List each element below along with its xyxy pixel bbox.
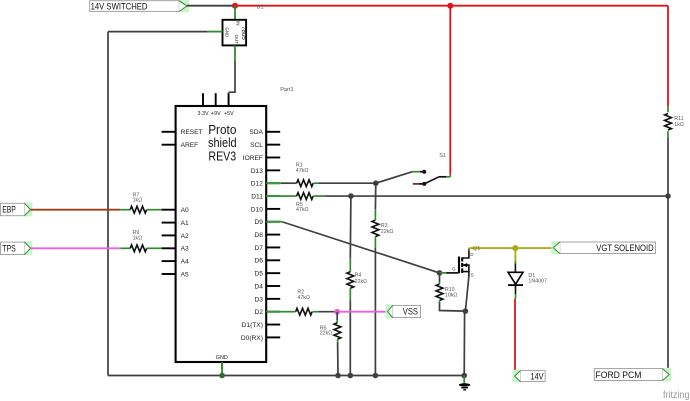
- svg-text:S: S: [471, 272, 474, 277]
- svg-text:IN: IN: [236, 21, 241, 25]
- net label TPS: [1, 241, 33, 255]
- junction node R4 bus: [348, 373, 354, 379]
- svg-text:VGT SOLENOID: VGT SOLENOID: [596, 243, 654, 253]
- svg-text:D2: D2: [254, 309, 263, 316]
- wire 14V SWITCHED to U1 IN node: [187, 5, 235, 7]
- svg-text:IOREF: IOREF: [243, 155, 263, 162]
- resistor R3: [372, 209, 379, 248]
- wire VSS magenta: [337, 311, 387, 313]
- svg-text:A4: A4: [181, 259, 189, 266]
- svg-text:D10: D10: [251, 206, 263, 213]
- svg-text:47kΩ: 47kΩ: [297, 295, 310, 301]
- label R2 value: [297, 290, 310, 302]
- net label 14V: [513, 370, 546, 383]
- svg-text:A0: A0: [181, 207, 189, 214]
- label D1 value: [528, 273, 547, 284]
- resistor R4: [347, 258, 354, 301]
- label U1: [257, 4, 264, 10]
- svg-text:D3: D3: [254, 296, 263, 303]
- junction node D2/VSS: [334, 309, 340, 315]
- junction node gate: [437, 270, 443, 276]
- svg-text:+9V: +9V: [211, 111, 221, 117]
- wire U1 GND: [108, 31, 223, 33]
- wire right rail to FORD PCM: [667, 196, 669, 372]
- svg-text:D12: D12: [251, 181, 263, 188]
- svg-text:D1(TX): D1(TX): [242, 322, 263, 329]
- label S1: [439, 153, 446, 159]
- svg-text:D0(RX): D0(RX): [241, 335, 263, 342]
- label R1 value: [296, 163, 309, 174]
- svg-text:A1: A1: [181, 220, 189, 227]
- junction node ground bus: [461, 373, 467, 379]
- wire R11 to D11 net: [667, 137, 669, 196]
- wire red right rail: [667, 6, 669, 107]
- svg-text:shield: shield: [208, 136, 237, 150]
- svg-text:14V: 14V: [531, 371, 544, 381]
- label R6 value: [320, 325, 333, 336]
- ground: [459, 376, 471, 390]
- svg-text:A5: A5: [181, 271, 189, 278]
- wire gate lead: [440, 272, 459, 274]
- proto shield U2 pin stubs: [162, 93, 281, 369]
- svg-text:R3: R3: [381, 223, 388, 229]
- svg-text:22kΩ: 22kΩ: [381, 229, 394, 235]
- junction node S1 branch: [447, 3, 453, 9]
- wire D1 to 14V: [514, 285, 517, 375]
- svg-text:14V SWITCHED: 14V SWITCHED: [91, 1, 148, 11]
- junction node GND bus: [219, 373, 225, 379]
- wire D11 junction down: [349, 196, 352, 258]
- wire left ground rail: [107, 32, 109, 376]
- svg-text:REV3: REV3: [208, 150, 236, 164]
- svg-text:GND: GND: [216, 355, 228, 361]
- net label 14V SWITCHED: [90, 0, 189, 12]
- wire red to S1: [449, 6, 451, 175]
- wire source junction to ground: [463, 311, 465, 375]
- wire D12 junction down: [374, 183, 376, 209]
- label R3 value: [381, 223, 394, 235]
- resistor R2: [266, 308, 318, 315]
- svg-text:1N4007: 1N4007: [528, 279, 547, 285]
- wire VGT node to label: [515, 247, 553, 249]
- wire bottom ground bus: [108, 375, 464, 377]
- junction node D12: [373, 180, 379, 186]
- svg-text:OUT: OUT: [234, 35, 239, 45]
- svg-text:10kΩ: 10kΩ: [445, 292, 458, 298]
- svg-text:U1: U1: [257, 4, 264, 10]
- wire D11 long net: [351, 195, 668, 197]
- wire R6 to bus: [337, 343, 339, 376]
- label R4 value: [355, 273, 368, 285]
- svg-text:Part1: Part1: [280, 87, 293, 93]
- net label VGT SOLENOID: [551, 241, 655, 254]
- svg-text:3.3V: 3.3V: [197, 111, 208, 117]
- svg-text:D4: D4: [254, 283, 263, 290]
- net label VSS: [386, 305, 421, 319]
- label Q1: [473, 246, 480, 252]
- wire U1 OUT to +5V: [229, 45, 235, 106]
- wire TPS: [31, 247, 121, 249]
- diode D1: [508, 272, 523, 285]
- svg-text:RESET: RESET: [181, 129, 203, 136]
- wire drain to VGT node: [469, 248, 516, 251]
- svg-text:D7: D7: [254, 245, 263, 252]
- junction node U1-IN: [232, 3, 238, 9]
- voltage regulator U1 7805: [223, 20, 248, 46]
- svg-text:A2: A2: [181, 233, 189, 240]
- junction node R3 bus: [373, 373, 379, 379]
- resistor R9: [120, 245, 161, 252]
- svg-text:D5: D5: [254, 271, 263, 278]
- svg-text:G: G: [452, 267, 456, 272]
- svg-text:A3: A3: [181, 246, 189, 253]
- fritzing watermark: [663, 390, 690, 401]
- wire R4 to bus: [349, 301, 351, 376]
- resistor R1: [266, 180, 319, 187]
- svg-text:47kΩ: 47kΩ: [296, 168, 309, 174]
- junction node D11/right-rail: [665, 193, 671, 199]
- resistor R6: [334, 312, 341, 343]
- net label FORD PCM: [594, 368, 671, 382]
- label Part1: [280, 87, 293, 93]
- junction node D11: [348, 193, 354, 199]
- resistor R7: [120, 206, 161, 213]
- svg-text:EBP: EBP: [2, 205, 16, 215]
- svg-text:FORD PCM: FORD PCM: [596, 370, 642, 380]
- svg-text:S1: S1: [439, 153, 446, 159]
- label R10 value: [445, 287, 458, 299]
- svg-text:fritzing: fritzing: [663, 390, 690, 401]
- label R11 value: [674, 116, 684, 128]
- svg-text:TPS: TPS: [2, 244, 16, 254]
- svg-text:AREF: AREF: [181, 142, 199, 149]
- label R5 value: [296, 202, 309, 213]
- wire source to bus: [465, 276, 469, 311]
- svg-text:Proto: Proto: [208, 123, 236, 137]
- svg-text:D9: D9: [254, 219, 263, 226]
- svg-text:SCL: SCL: [250, 142, 263, 149]
- svg-text:R4: R4: [355, 273, 362, 279]
- net label EBP: [1, 203, 33, 217]
- svg-text:1kΩ: 1kΩ: [133, 197, 143, 203]
- wire D9 to gate: [266, 222, 439, 273]
- svg-text:D13: D13: [251, 168, 263, 175]
- svg-text:VSS: VSS: [403, 307, 418, 317]
- svg-text:7805: 7805: [240, 26, 247, 40]
- wire shield GND to bus: [221, 362, 223, 376]
- wire U1 IN pin: [234, 6, 236, 20]
- svg-text:D8: D8: [254, 232, 263, 239]
- wire R3 to bus: [374, 248, 376, 376]
- svg-text:1kΩ: 1kΩ: [133, 235, 143, 241]
- resistor R11: [665, 107, 672, 138]
- wire R5 to junction: [325, 195, 351, 197]
- label R7 value: [133, 192, 143, 203]
- svg-text:GND: GND: [225, 28, 230, 38]
- svg-text:1kΩ: 1kΩ: [674, 122, 684, 128]
- svg-text:SDA: SDA: [249, 129, 263, 136]
- transistor Q1 MOSFET: [452, 248, 474, 277]
- svg-text:Q1: Q1: [473, 246, 480, 252]
- wire EBP: [31, 209, 121, 211]
- svg-text:D6: D6: [254, 258, 263, 265]
- wire VGT node to D1: [514, 248, 516, 272]
- svg-text:D11: D11: [251, 193, 263, 200]
- svg-text:+5V: +5V: [224, 111, 234, 117]
- svg-text:47kΩ: 47kΩ: [296, 207, 309, 213]
- svg-text:22kΩ: 22kΩ: [320, 331, 333, 337]
- proto shield Part1 body: [176, 106, 267, 362]
- wire red 14V bus top: [235, 5, 668, 7]
- junction node R6 bus: [335, 373, 341, 379]
- junction node source: [463, 308, 469, 314]
- svg-text:22kΩ: 22kΩ: [355, 279, 368, 285]
- wire R1 to junction: [319, 182, 376, 184]
- junction node VGT: [512, 245, 518, 251]
- resistor R5: [266, 193, 325, 200]
- resistor R10: [436, 273, 465, 311]
- switch S1: [412, 170, 450, 186]
- wire R2 to junction: [319, 311, 338, 313]
- wire D12 junction to S1 throw: [376, 172, 413, 184]
- label R9 value: [133, 230, 143, 241]
